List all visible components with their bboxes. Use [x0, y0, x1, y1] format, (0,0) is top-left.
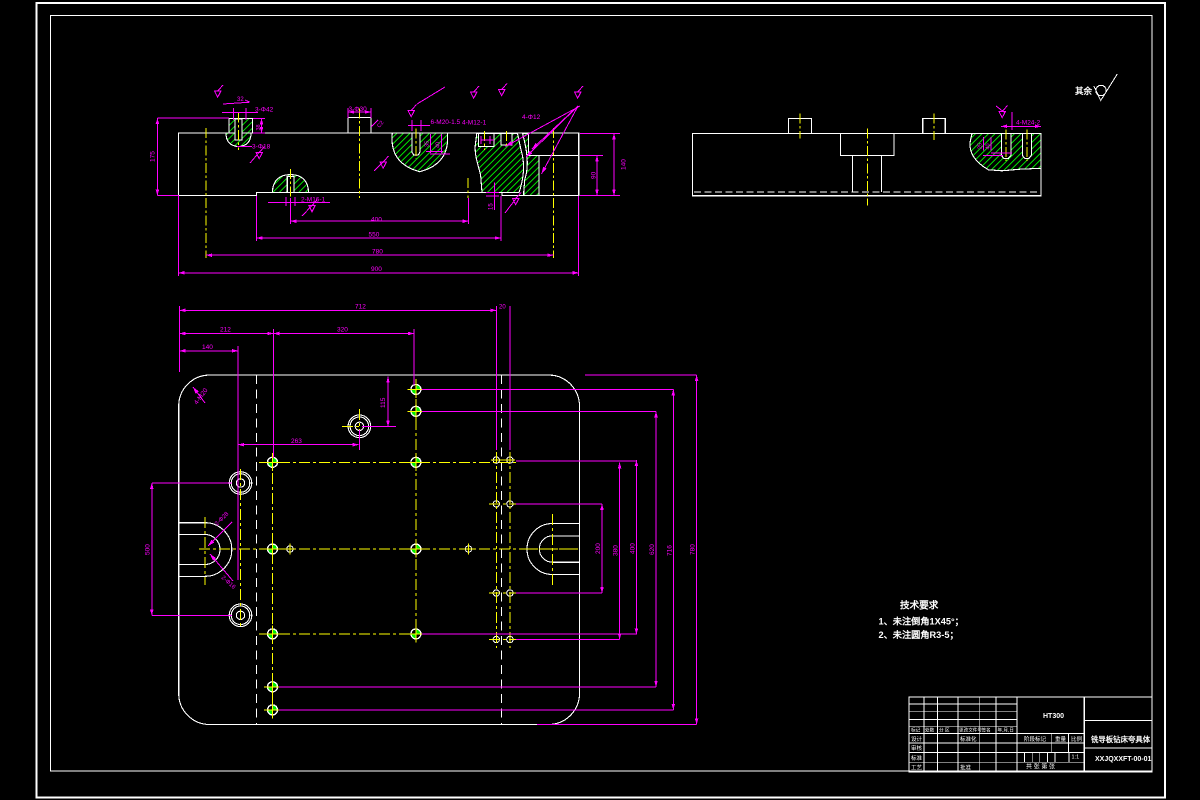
- svg-text:320: 320: [337, 327, 348, 334]
- svg-text:4-Φ12: 4-Φ12: [522, 114, 541, 121]
- svg-text:2、未注圆角R3-5；: 2、未注圆角R3-5；: [879, 629, 959, 641]
- svg-text:40: 40: [436, 142, 442, 148]
- svg-text:716: 716: [666, 545, 673, 556]
- svg-text:XXJQXXFT-00-01: XXJQXXFT-00-01: [1095, 756, 1152, 763]
- svg-text:620: 620: [649, 544, 656, 555]
- svg-text:更改文件号: 更改文件号: [959, 727, 982, 734]
- svg-text:263: 263: [291, 438, 302, 445]
- svg-text:签名: 签名: [982, 727, 991, 734]
- svg-text:780: 780: [690, 544, 697, 555]
- svg-text:阶段标记: 阶段标记: [1024, 735, 1047, 743]
- svg-text:设计: 设计: [911, 735, 923, 743]
- svg-text:500: 500: [145, 544, 152, 555]
- svg-text:标记: 标记: [911, 727, 921, 734]
- svg-text:32: 32: [237, 97, 244, 103]
- svg-text:6-M20-1.5: 6-M20-1.5: [431, 119, 461, 126]
- svg-text:20: 20: [499, 305, 506, 311]
- svg-text:380: 380: [613, 545, 620, 556]
- svg-text:共 张 第 张: 共 张 第 张: [1026, 763, 1055, 771]
- svg-text:550: 550: [369, 232, 380, 239]
- svg-text:900: 900: [371, 266, 382, 273]
- svg-text:2-M16-1: 2-M16-1: [301, 197, 326, 204]
- svg-text:25: 25: [978, 143, 984, 149]
- svg-text:其余: 其余: [1075, 86, 1093, 96]
- svg-text:400: 400: [371, 217, 382, 224]
- svg-text:200: 200: [595, 543, 602, 554]
- svg-text:175: 175: [150, 151, 157, 162]
- svg-text:212: 212: [220, 327, 231, 334]
- svg-text:处数: 处数: [925, 727, 935, 734]
- svg-text:比例: 比例: [1071, 735, 1083, 743]
- svg-text:分 区: 分 区: [939, 727, 950, 734]
- svg-text:审核: 审核: [911, 744, 923, 752]
- svg-text:技术要求: 技术要求: [900, 600, 939, 612]
- svg-text:1、未注倒角1X45°；: 1、未注倒角1X45°；: [879, 616, 964, 628]
- svg-text:712: 712: [355, 304, 366, 311]
- svg-text:90: 90: [591, 171, 598, 179]
- svg-text:年,月,日: 年,月,日: [998, 727, 1014, 734]
- svg-text:1:1: 1:1: [1072, 755, 1080, 761]
- svg-text:140: 140: [621, 159, 628, 170]
- svg-text:40: 40: [986, 143, 992, 149]
- svg-text:工艺: 工艺: [911, 764, 923, 771]
- svg-text:重量: 重量: [1055, 735, 1067, 743]
- svg-text:35: 35: [425, 141, 431, 147]
- svg-text:780: 780: [372, 249, 383, 256]
- svg-text:4-M12-1: 4-M12-1: [462, 120, 487, 127]
- svg-text:400: 400: [629, 543, 636, 554]
- svg-text:批准: 批准: [960, 763, 972, 771]
- svg-text:铣导板钻床夸具体: 铣导板钻床夸具体: [1091, 735, 1151, 744]
- svg-text:标准: 标准: [911, 754, 923, 762]
- svg-text:115: 115: [380, 397, 387, 408]
- svg-text:3-Φ42: 3-Φ42: [255, 107, 274, 114]
- svg-text:15: 15: [489, 203, 495, 210]
- svg-text:标准化: 标准化: [960, 735, 977, 743]
- svg-text:HT300: HT300: [1043, 713, 1064, 720]
- svg-text:140: 140: [202, 344, 213, 351]
